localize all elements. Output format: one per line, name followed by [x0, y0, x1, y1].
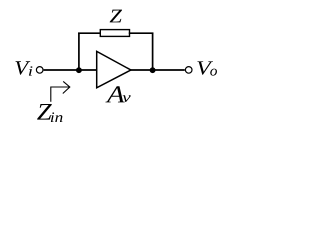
label Vi — [15, 61, 30, 74]
terminal Vi — [36, 67, 43, 74]
wire input — [44, 69, 98, 71]
wire output — [130, 69, 184, 71]
arrow Zin direction — [51, 81, 70, 101]
label Av — [105, 86, 124, 102]
node A input junction — [76, 67, 82, 73]
wire feedback top left segment — [78, 32, 101, 34]
label Vo — [197, 61, 213, 74]
terminal Vo — [185, 67, 192, 74]
op-amp Av triangle — [97, 51, 131, 87]
wire feedback left vertical — [78, 33, 80, 71]
node B output junction — [150, 67, 156, 73]
label Zin — [37, 104, 52, 120]
label Z — [110, 10, 122, 23]
wire feedback top right segment — [129, 32, 154, 34]
wire feedback right vertical — [152, 33, 154, 71]
impedance Z — [100, 30, 129, 37]
